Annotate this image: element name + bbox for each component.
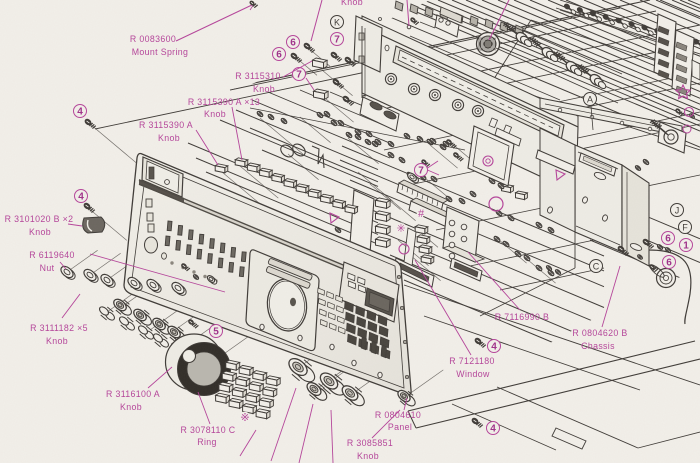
- slot bar: [394, 258, 434, 287]
- bushing: [648, 263, 675, 288]
- washers upper: [250, 108, 465, 150]
- circled 6a: [273, 48, 286, 61]
- label 3115390x13: [188, 97, 260, 119]
- clip defs: [0, 0, 1, 1]
- keycap strip: [404, 228, 416, 266]
- screw 6b: [303, 42, 315, 52]
- knob row R3111182: [98, 297, 206, 358]
- knob b4: [340, 383, 367, 409]
- knob b5: [396, 388, 417, 408]
- upper pots: [496, 23, 622, 103]
- mark star: [676, 85, 690, 99]
- circled F: [679, 221, 692, 234]
- label 7116990: [495, 312, 550, 322]
- nut mid: [406, 171, 420, 184]
- label 3111182: [30, 323, 88, 346]
- main knob R3116100A: [166, 334, 231, 396]
- circled J: [671, 204, 684, 217]
- mark circle 3: [399, 244, 409, 254]
- label 3085851: [347, 438, 393, 461]
- hw bits mid: [181, 263, 218, 286]
- cubes mid right: [502, 184, 528, 200]
- bar knob 2: [409, 198, 456, 228]
- board width edges: [188, 0, 700, 364]
- chassis top rail: [540, 98, 682, 136]
- label top partial: [341, 0, 363, 7]
- circled K: [331, 16, 344, 29]
- gradient defs: [0, 0, 1, 1]
- circled A: [584, 93, 597, 131]
- subframe pot row: [385, 73, 483, 116]
- right small parts: [675, 60, 700, 119]
- label 3078110: [180, 425, 235, 447]
- right pot: [635, 120, 686, 171]
- circled 7a: [331, 33, 344, 46]
- knob cubes x13: [235, 158, 357, 214]
- label 3115390: [139, 120, 193, 143]
- mark tri 2: [556, 170, 565, 180]
- knob cube top1: [313, 58, 328, 68]
- mark circle 1: [685, 108, 694, 117]
- beam screw hole: [379, 18, 411, 29]
- mark hash: [418, 208, 425, 220]
- washer r1: [657, 244, 672, 253]
- circled 7c: [415, 161, 440, 177]
- mark circle 2: [489, 197, 503, 211]
- magenta leaders: [60, 0, 620, 463]
- screw 4b: [83, 202, 95, 212]
- circled 4a: [74, 105, 87, 118]
- screw 7a: [330, 51, 342, 61]
- screw b7: [471, 417, 483, 427]
- screw 5: [188, 319, 199, 328]
- label 6119640: [29, 250, 75, 273]
- left connector blocks: [350, 190, 390, 253]
- circled 6b: [287, 36, 300, 49]
- washer runs: [354, 128, 555, 276]
- keypad cubes: [216, 360, 281, 419]
- screw r2: [617, 245, 629, 255]
- screw 7d: [342, 95, 354, 105]
- mount spring screw: [249, 0, 257, 7]
- circled 6d: [663, 256, 676, 269]
- chassis floor: [404, 232, 700, 450]
- slot plate: [360, 97, 399, 131]
- knob cube single: [215, 164, 228, 173]
- nut row R6119640: [59, 264, 188, 297]
- subframe small holes: [489, 118, 512, 135]
- lamp bracket: [410, 7, 462, 37]
- circled 1: [680, 239, 693, 252]
- circled 4d: [487, 422, 500, 435]
- washer r2: [637, 254, 643, 260]
- screw r1: [642, 238, 654, 248]
- mark circle 1b: [683, 125, 691, 133]
- circled 5: [210, 325, 223, 338]
- circled 4c: [488, 340, 501, 353]
- slot bar 2: [450, 258, 482, 281]
- top post row: [395, 1, 523, 35]
- axis lines: [67, 47, 556, 397]
- label 3101020: [5, 214, 74, 237]
- sub-frame beam: [354, 16, 578, 193]
- board edges: [410, 10, 700, 150]
- screw 7c: [332, 78, 344, 88]
- keycap column: [415, 225, 434, 264]
- knob b1: [286, 355, 318, 385]
- circled 7b: [293, 68, 306, 81]
- washers lower left: [334, 227, 561, 276]
- cable: [649, 250, 691, 324]
- mark dcirc: [483, 156, 493, 166]
- mark tri 1: [330, 213, 339, 223]
- knob b3: [317, 370, 348, 398]
- screw 7b: [344, 56, 356, 66]
- label 0804620: [572, 328, 627, 351]
- plate depth edges: [83, 0, 700, 290]
- mid screws: [421, 139, 463, 167]
- knob wedge 2: [169, 279, 191, 295]
- bracket R7116990: [443, 207, 484, 262]
- circled 4b: [75, 190, 88, 203]
- ring parts: [278, 142, 324, 168]
- label 7121180: [449, 356, 495, 379]
- label 0804610: [375, 410, 421, 432]
- circled 6c: [662, 232, 675, 245]
- knob wedge 1: [83, 217, 105, 233]
- window plate R7121180: [468, 126, 521, 186]
- bar knob 1: [397, 180, 448, 212]
- label 3115310: [235, 71, 281, 94]
- mark ast: [396, 223, 405, 235]
- knob cube top2: [314, 89, 329, 99]
- screw 4a: [84, 118, 96, 128]
- front panel R0804610: [124, 154, 411, 395]
- right connector strip: [654, 14, 694, 96]
- round connector: [477, 33, 500, 56]
- label mount spring: [130, 34, 188, 57]
- label 3116100: [106, 389, 160, 412]
- knob b2: [305, 380, 329, 403]
- chassis right plate: [540, 128, 649, 266]
- screw r3: [649, 264, 658, 272]
- screw 6a: [290, 52, 302, 62]
- mark ref: [240, 412, 249, 424]
- screw b6: [474, 337, 486, 347]
- subframe right rects: [536, 150, 616, 176]
- top screw rail: [556, 0, 700, 54]
- circled C: [590, 260, 603, 273]
